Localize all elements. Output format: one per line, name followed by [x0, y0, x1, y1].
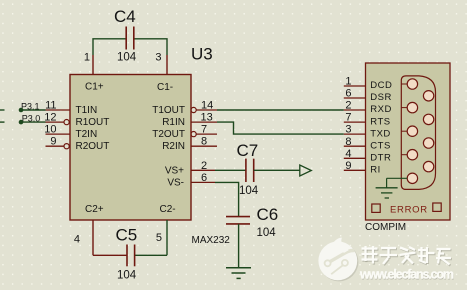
svg-text:RI: RI	[370, 165, 381, 176]
svg-text:14: 14	[201, 100, 213, 112]
watermark url text	[359, 267, 455, 282]
U3 pin 14 (T1OUT)	[191, 100, 217, 113]
svg-text:RTS: RTS	[370, 116, 390, 127]
svg-text:R2IN: R2IN	[162, 141, 185, 152]
wire C6 to ground	[238, 224, 240, 267]
U3 pin 6 (VS-)	[191, 172, 215, 184]
svg-text:13: 13	[201, 112, 213, 124]
svg-text:8: 8	[201, 136, 207, 148]
svg-text:DSR: DSR	[370, 92, 392, 103]
svg-text:T1OUT: T1OUT	[152, 105, 185, 116]
COMPIM pin 6 (DSR)	[344, 88, 392, 104]
U3 pin 5 (C2-)	[156, 220, 167, 255]
svg-text:6: 6	[201, 172, 207, 184]
COMPIM DB9 hole 5	[407, 173, 417, 183]
watermark logo circle	[318, 238, 358, 282]
svg-text:12: 12	[44, 112, 56, 124]
capacitor C6	[226, 205, 278, 239]
capacitor C4	[114, 7, 137, 64]
svg-text:COMPIM: COMPIM	[365, 222, 406, 233]
svg-text:www.elecfans.com: www.elecfans.com	[359, 267, 454, 281]
wire U3 pin 14 to COMPIM RXD	[217, 109, 344, 111]
svg-text:104: 104	[239, 185, 259, 197]
svg-text:C4: C4	[114, 7, 136, 26]
ground (inside COMPIM)	[376, 178, 398, 198]
svg-text:4: 4	[74, 234, 80, 246]
svg-text:9: 9	[50, 136, 56, 148]
svg-text:C2+: C2+	[85, 204, 104, 215]
svg-text:R1OUT: R1OUT	[76, 117, 110, 128]
svg-text:ERROR: ERROR	[390, 205, 428, 216]
U3 pin 7 (T2OUT)	[191, 124, 217, 137]
svg-text:1: 1	[345, 76, 351, 88]
svg-text:8: 8	[345, 136, 351, 148]
wire U3 pin 6 to C6	[215, 182, 239, 216]
U3 pin 1 (C1+)	[84, 52, 93, 75]
svg-text:2: 2	[201, 160, 207, 172]
svg-text:104: 104	[117, 52, 137, 64]
COMPIM DB9 hole 6	[423, 91, 433, 101]
U3 internal pin name labels	[76, 82, 186, 216]
svg-text:C1+: C1+	[85, 82, 104, 93]
COMPIM DB9 hole 1	[407, 79, 417, 89]
U3 pin 2 (VS+)	[191, 160, 215, 172]
svg-text:5: 5	[156, 232, 162, 244]
svg-text:T2OUT: T2OUT	[152, 129, 185, 140]
svg-text:DCD: DCD	[370, 80, 392, 91]
COMPIM pin 4 (DTR)	[344, 148, 392, 164]
watermark chinese text	[362, 246, 452, 266]
svg-text:DTR: DTR	[370, 153, 391, 164]
svg-text:CTS: CTS	[370, 140, 391, 151]
U3 pin 8 (R2IN)	[191, 136, 217, 148]
svg-text:104: 104	[257, 227, 277, 239]
wire C7 to arrow terminal	[254, 169, 300, 171]
svg-text:3: 3	[155, 52, 161, 64]
svg-text:7: 7	[345, 112, 351, 124]
svg-text:6: 6	[345, 88, 351, 100]
wire U3 pin 13 to COMPIM TXD	[217, 122, 344, 134]
U3 pin 3 (C1-)	[155, 52, 167, 75]
svg-text:9: 9	[345, 160, 351, 172]
COMPIM DB9 shell	[401, 76, 435, 189]
COMPIM DB9 hole 3	[407, 126, 417, 136]
svg-text:RXD: RXD	[370, 104, 392, 115]
svg-text:MAX232: MAX232	[192, 235, 231, 246]
U3 pin 9 (R2OUT)	[46, 136, 70, 149]
COMPIM DB9 hole 7	[423, 114, 433, 124]
op-amp U3 body (MAX232 chip)	[70, 45, 230, 247]
COMPIM pin 2 (RXD)	[344, 100, 392, 116]
wire C4 loop	[93, 39, 167, 55]
COMPIM pin 3 (TXD)	[344, 124, 391, 140]
COMPIM pin 1 (DCD)	[344, 76, 393, 92]
COMPIM DB9 hole 9	[423, 161, 433, 171]
COMPIM DB9 pin stubs	[401, 84, 407, 155]
svg-text:C7: C7	[237, 141, 259, 160]
svg-text:3: 3	[345, 124, 351, 136]
svg-text:U3: U3	[191, 45, 213, 64]
svg-text:C5: C5	[116, 226, 138, 245]
U3 pin 4 (C2+)	[74, 220, 93, 255]
arrow output terminal	[300, 165, 312, 176]
COMPIM error indicator right	[433, 203, 441, 211]
svg-text:10: 10	[44, 124, 56, 136]
svg-text:104: 104	[117, 270, 137, 282]
COMPIM pin 7 (RTS)	[344, 112, 391, 128]
COMPIM DB9 hole 2	[407, 102, 417, 112]
ground	[226, 268, 251, 279]
svg-text:1: 1	[84, 52, 90, 64]
capacitor C5	[116, 226, 138, 282]
wire P3.1 to U3 pin 11	[21, 109, 46, 111]
wire DB9 pin5 to internal ground	[387, 177, 408, 179]
svg-text:VS+: VS+	[165, 165, 184, 176]
svg-text:7: 7	[201, 124, 207, 136]
svg-text:4: 4	[345, 148, 351, 160]
svg-text:VS-: VS-	[167, 177, 184, 188]
COMPIM DB9 hole 4	[407, 150, 417, 160]
svg-text:TXD: TXD	[370, 128, 391, 139]
connector COMPIM body	[365, 63, 450, 233]
svg-text:R1IN: R1IN	[162, 117, 185, 128]
U3 pin 11 (T1IN)	[45, 100, 70, 112]
wire U3 pin 2 to C7	[215, 169, 246, 171]
U3 pin 12 (R1OUT)	[44, 112, 69, 125]
svg-text:2: 2	[345, 100, 351, 112]
U3 pin 10 (T2IN)	[44, 124, 70, 136]
COMPIM pin 9 (RI)	[344, 160, 381, 176]
COMPIM error indicator left	[372, 204, 380, 212]
wire P3.0 to U3 pin 12	[21, 121, 46, 123]
COMPIM DB9 hole 8	[423, 138, 433, 148]
capacitor C7	[237, 141, 259, 197]
wire C5 loop	[93, 254, 167, 256]
svg-text:T1IN: T1IN	[76, 105, 98, 116]
svg-text:C2-: C2-	[160, 204, 176, 215]
node P3.1	[0, 101, 40, 112]
svg-text:T2IN: T2IN	[76, 129, 98, 140]
svg-text:R2OUT: R2OUT	[76, 141, 110, 152]
COMPIM pin 8 (CTS)	[344, 136, 391, 152]
svg-text:11: 11	[45, 100, 56, 112]
node P3.0	[0, 114, 40, 125]
svg-text:C6: C6	[257, 205, 279, 224]
svg-text:C1-: C1-	[157, 82, 173, 93]
U3 pin 13 (R1IN)	[191, 112, 217, 124]
